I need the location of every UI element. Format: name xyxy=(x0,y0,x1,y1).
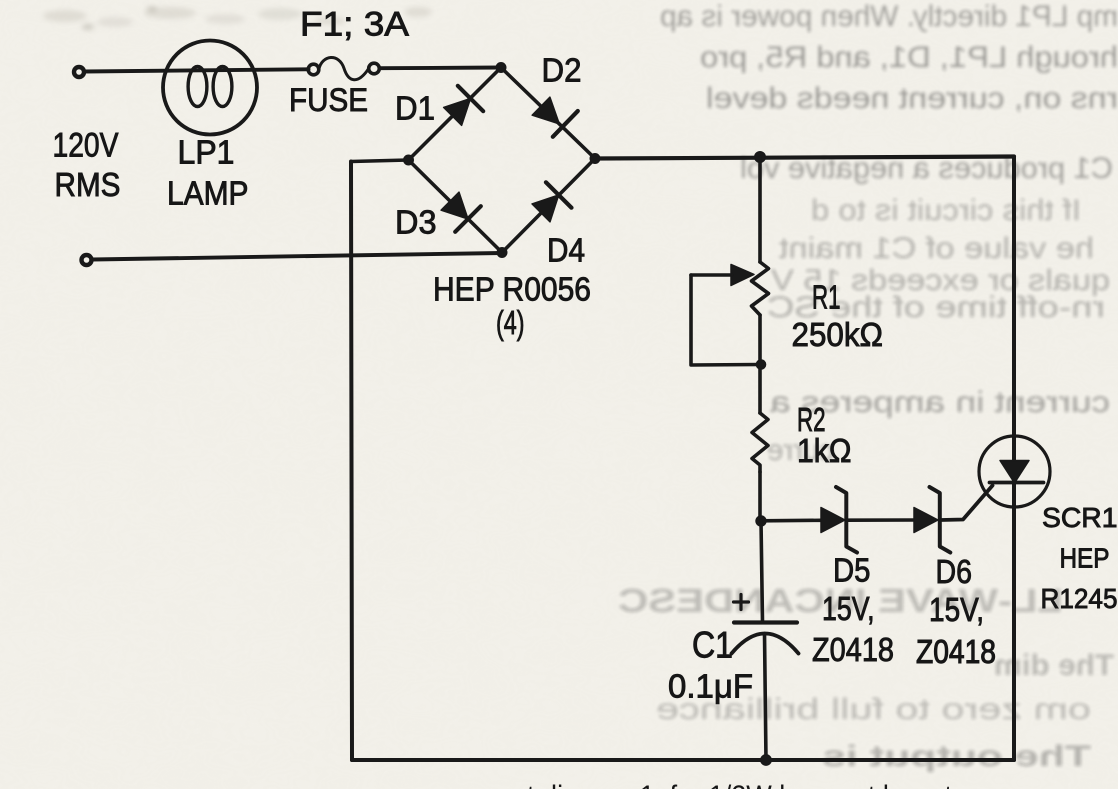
wire: box right edge through SCR xyxy=(1012,157,1016,761)
svg-text:at dimmer 1. for 1/2W lamp, at: at dimmer 1. for 1/2W lamp, at low st xyxy=(512,780,953,789)
svg-text:RMS: RMS xyxy=(55,166,121,203)
SCR1 body circle xyxy=(979,436,1050,507)
wire: branch top down to R1 xyxy=(758,157,762,262)
zener D5 cathode bar xyxy=(836,487,857,553)
fuse F1 left terminal xyxy=(308,64,319,75)
capacitor C1 plus sign xyxy=(734,595,749,610)
potentiometer R1 wiper arrowhead xyxy=(731,265,754,286)
wire: gate node down to C1 xyxy=(761,521,763,622)
svg-text:15V,: 15V, xyxy=(822,590,875,627)
bridge edge B-R (D4 body wire) xyxy=(502,159,595,253)
svg-text:15V,: 15V, xyxy=(929,591,984,628)
svg-text:Z0418: Z0418 xyxy=(916,633,996,670)
svg-text:rns on, current needs devel: rns on, current needs devel xyxy=(706,82,1118,115)
diode D4 cathode bar xyxy=(546,182,572,207)
svg-text:SCR1: SCR1 xyxy=(1042,502,1118,533)
diode D4 triangle xyxy=(532,195,559,222)
svg-text:250kΩ: 250kΩ xyxy=(792,316,884,353)
svg-text:The output is: The output is xyxy=(822,740,1091,773)
junction node gate/C1 xyxy=(756,516,766,526)
fuse F1 element xyxy=(319,58,369,80)
wire: gate node to D5 xyxy=(761,518,821,522)
svg-text:FUSE: FUSE xyxy=(289,82,368,118)
svg-text:If this circuit is to d: If this circuit is to d xyxy=(811,194,1081,227)
resistor R2 zigzag body xyxy=(752,413,768,472)
wire: R1 bottom lead xyxy=(758,315,762,413)
wire: D5 to D6 xyxy=(847,518,914,522)
wire: C1 to box bottom xyxy=(765,634,767,761)
bridge edge T-L (D1 body wire) xyxy=(409,68,502,161)
svg-text:hrough LP1, D1, and R5, pro: hrough LP1, D1, and R5, pro xyxy=(700,41,1118,74)
svg-text:HEP: HEP xyxy=(1060,543,1110,574)
svg-text:R1: R1 xyxy=(812,279,841,316)
potentiometer R1 zigzag body xyxy=(752,262,769,315)
zener D5 triangle xyxy=(821,508,845,533)
wire: box bottom edge xyxy=(352,758,1014,762)
SCR1 triangle xyxy=(1000,461,1029,484)
bridge edge T-R (D2 body wire) xyxy=(501,68,595,159)
wire: D6 to SCR gate xyxy=(941,486,993,521)
zener D6 triangle xyxy=(914,508,938,533)
terminal T2 (lower AC input) xyxy=(82,255,92,265)
wire: bridge left node to box left edge xyxy=(351,160,409,162)
svg-text:1kΩ: 1kΩ xyxy=(797,432,852,469)
svg-text:mp LP1 directly. When power is: mp LP1 directly. When power is ap xyxy=(660,0,1118,33)
svg-text:D4: D4 xyxy=(547,232,585,269)
potentiometer R1 wiper tail wire xyxy=(691,273,732,277)
lamp LP1 filament loop left xyxy=(188,67,207,107)
capacitor C1 top plate xyxy=(734,620,797,624)
scan speckle marks top edge xyxy=(43,6,432,30)
svg-text:(4): (4) xyxy=(496,304,525,341)
svg-text:0.1μF: 0.1μF xyxy=(668,668,753,705)
wire: fuse to bridge top node xyxy=(380,66,502,71)
wire: R1 wiper loop left/bottom xyxy=(691,275,760,365)
terminal T1 (upper AC input) xyxy=(74,67,84,77)
diode D3 triangle xyxy=(441,192,468,219)
wire: bridge right node to top-right corner xyxy=(595,157,1014,159)
wire: box left edge xyxy=(351,162,352,761)
junction node at bridge left xyxy=(404,155,414,165)
wire: T1 to fuse (through lamp) xyxy=(85,69,309,71)
junction node at bridge bottom xyxy=(497,248,507,258)
svg-text:LP1: LP1 xyxy=(178,134,235,171)
svg-text:D1: D1 xyxy=(395,90,435,127)
svg-text:C1: C1 xyxy=(692,625,733,666)
svg-text:HEP R0056: HEP R0056 xyxy=(433,271,591,308)
junction node R1/R2 xyxy=(756,360,766,370)
bridge edge L-B (D3 body wire) xyxy=(409,160,503,253)
fuse F1 right terminal xyxy=(369,63,380,74)
diode D2 triangle xyxy=(532,97,559,124)
lamp LP1 filament loop right xyxy=(213,67,232,107)
wire: R2 bottom lead to gate node xyxy=(758,472,762,521)
junction node at R1 branch top xyxy=(755,152,766,163)
diode D1 cathode bar xyxy=(458,86,483,111)
junction node at bridge top xyxy=(496,63,506,73)
svg-text:F1; 3A: F1; 3A xyxy=(300,6,409,44)
junction node at bridge right xyxy=(590,154,600,164)
junction node C1 bottom xyxy=(761,755,772,766)
lamp LP1 envelope xyxy=(163,41,257,135)
wire: T2 to bridge bottom node xyxy=(93,253,503,260)
svg-text:R1245: R1245 xyxy=(1041,583,1118,614)
diode D1 triangle xyxy=(444,99,471,126)
SCR1 cathode bar xyxy=(990,481,1044,485)
diode D2 cathode bar xyxy=(553,111,578,137)
svg-text:D3: D3 xyxy=(395,204,437,241)
zener D6 cathode bar xyxy=(930,487,951,553)
diode D3 cathode bar xyxy=(455,206,481,232)
svg-text:120V: 120V xyxy=(53,127,119,165)
svg-text:D6: D6 xyxy=(936,553,973,590)
svg-text:Z0418: Z0418 xyxy=(812,631,894,668)
svg-text:he value of C1 maint: he value of C1 maint xyxy=(778,232,1094,265)
ghost bleed-through text layer xyxy=(618,0,1118,773)
svg-text:D5: D5 xyxy=(833,552,871,589)
capacitor C1 curved bottom plate xyxy=(732,634,799,654)
svg-text:LAMP: LAMP xyxy=(167,175,249,212)
svg-text:D2: D2 xyxy=(542,52,582,89)
